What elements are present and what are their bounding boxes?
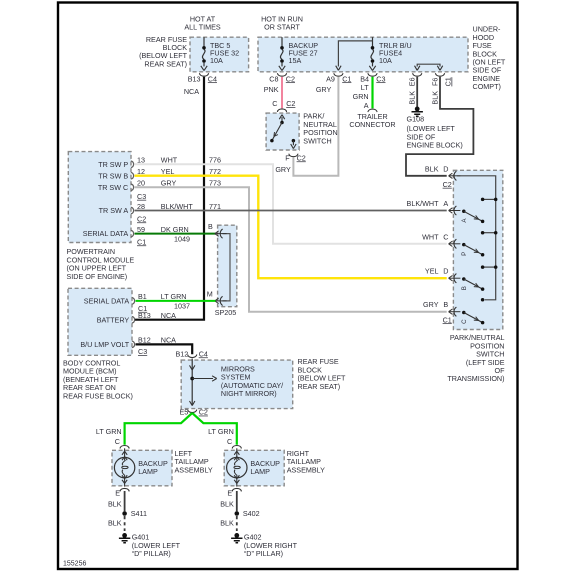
svg-text:“D” PILLAR): “D” PILLAR) bbox=[244, 549, 283, 558]
wire BLK/WHT 771 from PCM 28 to switch pin A bbox=[135, 210, 447, 212]
fuse TBC 5 FUSE 32 10A bbox=[201, 37, 207, 70]
svg-text:B4: B4 bbox=[360, 74, 369, 83]
svg-text:BLK: BLK bbox=[220, 500, 234, 509]
switch pin C WHT bbox=[449, 239, 461, 248]
svg-text:C3: C3 bbox=[376, 74, 385, 83]
BCM pin B1 SERIAL DATA bbox=[132, 298, 135, 305]
PCM pin 12 TR SW B bbox=[131, 172, 134, 179]
svg-text:C3: C3 bbox=[137, 192, 146, 201]
connector C right lamp bbox=[232, 446, 241, 449]
svg-text:C2: C2 bbox=[137, 214, 146, 223]
svg-text:B/U LMP VOLT: B/U LMP VOLT bbox=[80, 340, 129, 349]
backup lamp left bbox=[114, 448, 134, 486]
svg-text:WHT: WHT bbox=[422, 232, 439, 241]
SP205 pin M bbox=[215, 296, 227, 305]
right taillamp assembly dashed box bbox=[224, 450, 284, 486]
PCM pin 20 TR SW C bbox=[131, 184, 134, 191]
svg-text:59: 59 bbox=[137, 225, 145, 234]
svg-text:C1: C1 bbox=[444, 77, 453, 86]
svg-text:C1: C1 bbox=[342, 74, 351, 83]
internal bridge wire to E6 and F6 bbox=[417, 64, 440, 66]
svg-text:REAR FUSE BLOCK): REAR FUSE BLOCK) bbox=[63, 391, 133, 400]
svg-text:D: D bbox=[443, 267, 448, 276]
svg-text:C: C bbox=[227, 437, 232, 446]
svg-text:LT: LT bbox=[361, 83, 369, 92]
svg-text:GRY: GRY bbox=[275, 165, 291, 174]
svg-text:YEL: YEL bbox=[425, 267, 439, 276]
svg-text:15A: 15A bbox=[289, 56, 302, 65]
svg-text:GRY: GRY bbox=[316, 85, 332, 94]
svg-text:C1: C1 bbox=[138, 304, 147, 313]
svg-text:SERIAL DATA: SERIAL DATA bbox=[84, 297, 130, 306]
park/neutral position switch dashed box (transmission) bbox=[453, 170, 502, 329]
svg-text:C4: C4 bbox=[199, 349, 208, 358]
svg-text:TR SW P: TR SW P bbox=[98, 160, 128, 169]
connector E left lamp bbox=[120, 488, 129, 491]
svg-text:REAR SEAT): REAR SEAT) bbox=[144, 59, 187, 68]
svg-text:S411: S411 bbox=[131, 509, 147, 518]
rear fuse block (below left rear seat) dashed box bbox=[190, 37, 249, 72]
svg-text:BLK: BLK bbox=[425, 164, 439, 173]
svg-text:C: C bbox=[115, 437, 120, 446]
svg-text:A: A bbox=[443, 199, 448, 208]
connector C left lamp bbox=[120, 446, 129, 449]
switch internal bus from pin D bbox=[457, 176, 496, 300]
svg-text:C4: C4 bbox=[208, 74, 217, 83]
svg-text:E5: E5 bbox=[180, 408, 189, 417]
svg-text:1037: 1037 bbox=[174, 302, 190, 311]
switch contact stub row 1 bbox=[483, 198, 496, 200]
svg-text:B12: B12 bbox=[176, 349, 189, 358]
wire NCA from C4 to BCM BATTERY pin B13 bbox=[135, 77, 204, 320]
ground G402 bbox=[231, 533, 242, 543]
svg-text:B: B bbox=[461, 286, 468, 290]
svg-text:A: A bbox=[364, 101, 369, 110]
svg-text:NCA: NCA bbox=[161, 336, 176, 345]
wire BLK from lamp E to splice S402 bbox=[236, 491, 238, 511]
svg-text:PNK: PNK bbox=[264, 85, 279, 94]
connector F C2 bbox=[289, 154, 298, 157]
connector C8 C2 bbox=[277, 73, 286, 76]
svg-text:155256: 155256 bbox=[63, 561, 86, 568]
wire GRY from switch F up to fuse block A9 bbox=[293, 77, 338, 176]
svg-text:C3: C3 bbox=[138, 347, 147, 356]
svg-text:C2: C2 bbox=[199, 408, 208, 417]
svg-text:BLK: BLK bbox=[408, 91, 417, 105]
switch wiper contact C bbox=[461, 311, 484, 325]
wire BLK from E6 to ground G108 bbox=[416, 77, 418, 107]
svg-text:28: 28 bbox=[137, 202, 145, 211]
body control module dashed box bbox=[68, 288, 132, 355]
svg-text:C: C bbox=[461, 319, 468, 324]
svg-text:A9: A9 bbox=[326, 74, 335, 83]
svg-text:C2: C2 bbox=[297, 153, 306, 162]
wire LT GRN 1037 from BCM B1 to splice SP205 M bbox=[136, 300, 216, 302]
svg-text:F6: F6 bbox=[430, 78, 439, 86]
svg-text:ENGINE BLOCK): ENGINE BLOCK) bbox=[407, 141, 463, 150]
switch contact stub row 3 bbox=[483, 266, 496, 268]
wire DK GRN 1049 from PCM 59 to splice SP205 B bbox=[135, 233, 216, 235]
svg-text:S402: S402 bbox=[243, 509, 260, 518]
svg-text:ASSEMBLY: ASSEMBLY bbox=[175, 465, 213, 474]
wire LT GRN from B4 to trailer connector bbox=[371, 77, 373, 109]
svg-text:B: B bbox=[443, 300, 448, 309]
svg-text:E6: E6 bbox=[408, 77, 417, 86]
left taillamp assembly dashed box bbox=[112, 450, 172, 486]
svg-text:NIGHT MIRROR): NIGHT MIRROR) bbox=[221, 389, 277, 398]
svg-text:B: B bbox=[208, 222, 213, 231]
internal bus wire from A9 to fuse4 bbox=[338, 41, 372, 67]
powertrain control module dashed box bbox=[68, 152, 131, 243]
svg-text:D: D bbox=[443, 164, 448, 173]
wire BLK dashed from S411 to G401 bbox=[124, 516, 126, 531]
connector B12 C4 bbox=[188, 355, 197, 358]
SP205 internal jumper bbox=[223, 234, 231, 301]
svg-text:WHT: WHT bbox=[161, 156, 178, 165]
svg-text:SERIAL DATA: SERIAL DATA bbox=[83, 229, 129, 238]
switch pin D YEL bbox=[449, 274, 461, 283]
connector F6 bbox=[435, 73, 444, 76]
svg-text:E: E bbox=[115, 488, 120, 497]
svg-text:CONNECTOR: CONNECTOR bbox=[349, 120, 395, 129]
wire PNK from C8 to park/neutral switch pin C bbox=[281, 77, 283, 109]
svg-text:C2: C2 bbox=[443, 180, 452, 189]
svg-text:ASSEMBLY: ASSEMBLY bbox=[287, 465, 325, 474]
backup lamp right bbox=[227, 448, 247, 486]
svg-text:SIDE OF ENGINE): SIDE OF ENGINE) bbox=[67, 272, 128, 281]
switch wiper contact A bbox=[461, 210, 484, 224]
switch pin B GRY bbox=[449, 307, 461, 316]
svg-text:BATTERY: BATTERY bbox=[97, 315, 130, 324]
svg-text:TRANSMISSION): TRANSMISSION) bbox=[447, 374, 504, 383]
svg-text:TR SW A: TR SW A bbox=[99, 206, 129, 215]
PCM pin 59 SERIAL DATA bbox=[131, 230, 134, 237]
svg-text:B13: B13 bbox=[188, 74, 201, 83]
svg-text:G108: G108 bbox=[407, 115, 425, 124]
splice S411 bbox=[122, 511, 127, 516]
wire BLK from lamp E to splice S411 bbox=[124, 491, 126, 511]
svg-text:REAR SEAT): REAR SEAT) bbox=[298, 382, 341, 391]
switch bottom contact dot bbox=[481, 298, 485, 302]
svg-text:E: E bbox=[227, 488, 232, 497]
PCM pin 28 TR SW A bbox=[131, 207, 134, 214]
ground G108 bbox=[412, 107, 423, 117]
connector A9 C1 bbox=[334, 73, 343, 76]
wire LT GRN Y-split from E5 to backup lamps bbox=[125, 413, 193, 445]
svg-text:C2: C2 bbox=[286, 99, 295, 108]
svg-text:P: P bbox=[461, 252, 468, 256]
svg-text:SP205: SP205 bbox=[215, 308, 237, 317]
svg-text:DK GRN: DK GRN bbox=[161, 225, 189, 234]
svg-text:C2: C2 bbox=[286, 74, 295, 83]
svg-text:C1: C1 bbox=[137, 237, 146, 246]
underhood fuse block dashed box bbox=[258, 37, 468, 72]
BCM pin B12 B/U LMP VOLT bbox=[132, 341, 135, 348]
svg-text:10A: 10A bbox=[210, 56, 223, 65]
wire BLK from F6 to park/neutral position switch pin D bbox=[406, 77, 473, 176]
connector B13 C4 bbox=[199, 73, 208, 76]
switch contact symbol bbox=[270, 115, 296, 149]
splice pack SP205 dashed box bbox=[218, 225, 237, 307]
switch pin A BLK/WHT bbox=[449, 206, 461, 215]
connector A trailer bbox=[368, 109, 377, 112]
svg-text:B1: B1 bbox=[138, 292, 147, 301]
svg-text:771: 771 bbox=[209, 202, 221, 211]
svg-text:LAMP: LAMP bbox=[250, 467, 270, 476]
fuse BACKUP FUSE 27 15A bbox=[279, 37, 285, 70]
svg-text:“D” PILLAR): “D” PILLAR) bbox=[132, 549, 171, 558]
svg-text:13: 13 bbox=[137, 156, 145, 165]
svg-text:776: 776 bbox=[209, 156, 221, 165]
connector C C2 bbox=[277, 109, 286, 112]
ground G401 bbox=[119, 533, 130, 543]
switch pin D BLK bbox=[449, 171, 461, 180]
svg-text:BLK: BLK bbox=[108, 500, 122, 509]
switch wiper contact B bbox=[461, 277, 484, 291]
svg-text:20: 20 bbox=[137, 179, 145, 188]
connector E right lamp bbox=[232, 488, 241, 491]
svg-text:BLK: BLK bbox=[430, 91, 439, 105]
wire NCA from BCM B12 to rear fuse block B12 bbox=[136, 344, 193, 354]
svg-text:1049: 1049 bbox=[174, 235, 190, 244]
BCM pin B13 BATTERY bbox=[132, 316, 135, 323]
wire WHT 776 from PCM 13 to switch pin C bbox=[135, 164, 447, 244]
svg-text:M: M bbox=[207, 289, 213, 298]
switch wiper contact P bbox=[461, 243, 484, 257]
svg-text:C1: C1 bbox=[443, 315, 452, 324]
rear fuse block pass-through dashed box bbox=[181, 360, 293, 409]
connector B4 C3 bbox=[368, 73, 377, 76]
wire YEL 772 from PCM 12 to switch pin D bbox=[135, 176, 447, 279]
svg-text:10A: 10A bbox=[379, 56, 392, 65]
fuse TRLR B/U FUSE4 10A bbox=[369, 37, 375, 70]
svg-text:C: C bbox=[443, 232, 448, 241]
PCM pin 13 TR SW P bbox=[131, 161, 134, 168]
svg-text:TR SW B: TR SW B bbox=[98, 171, 128, 180]
svg-text:ALL TIMES: ALL TIMES bbox=[184, 22, 221, 31]
svg-text:LAMP: LAMP bbox=[138, 467, 158, 476]
park/neutral position switch dashed box bbox=[266, 113, 299, 150]
svg-text:OR START: OR START bbox=[264, 22, 300, 31]
connector E6 bbox=[413, 73, 422, 76]
splice S402 bbox=[235, 511, 240, 516]
svg-text:YEL: YEL bbox=[161, 167, 175, 176]
svg-text:C: C bbox=[272, 99, 277, 108]
wire GRY 773 from PCM 20 to switch pin B bbox=[135, 187, 447, 311]
svg-text:BLK: BLK bbox=[108, 519, 122, 528]
svg-text:NCA: NCA bbox=[161, 311, 176, 320]
svg-text:GRY: GRY bbox=[423, 300, 439, 309]
svg-text:773: 773 bbox=[209, 179, 221, 188]
svg-text:BLK/WHT: BLK/WHT bbox=[407, 199, 440, 208]
svg-text:NCA: NCA bbox=[184, 87, 199, 96]
svg-text:BLK/WHT: BLK/WHT bbox=[161, 202, 194, 211]
svg-text:BLK: BLK bbox=[220, 519, 234, 528]
svg-text:772: 772 bbox=[209, 167, 221, 176]
svg-text:GRY: GRY bbox=[161, 179, 177, 188]
svg-text:C8: C8 bbox=[269, 74, 278, 83]
internal wire with mirrors system tap bbox=[190, 359, 217, 406]
svg-text:F: F bbox=[285, 153, 290, 162]
svg-text:LT GRN: LT GRN bbox=[208, 427, 234, 436]
wire BLK dashed from S402 to G402 bbox=[236, 516, 238, 531]
SP205 pin B bbox=[215, 229, 227, 238]
svg-text:LT GRN: LT GRN bbox=[96, 427, 122, 436]
svg-text:TR SW C: TR SW C bbox=[98, 183, 128, 192]
switch contact stub row 2 bbox=[483, 232, 496, 234]
svg-text:LT GRN: LT GRN bbox=[161, 292, 187, 301]
svg-text:COMPT): COMPT) bbox=[473, 82, 501, 91]
svg-text:SWITCH: SWITCH bbox=[303, 136, 331, 145]
page frame border bbox=[58, 3, 518, 570]
connector E5 C2 bbox=[188, 410, 197, 413]
